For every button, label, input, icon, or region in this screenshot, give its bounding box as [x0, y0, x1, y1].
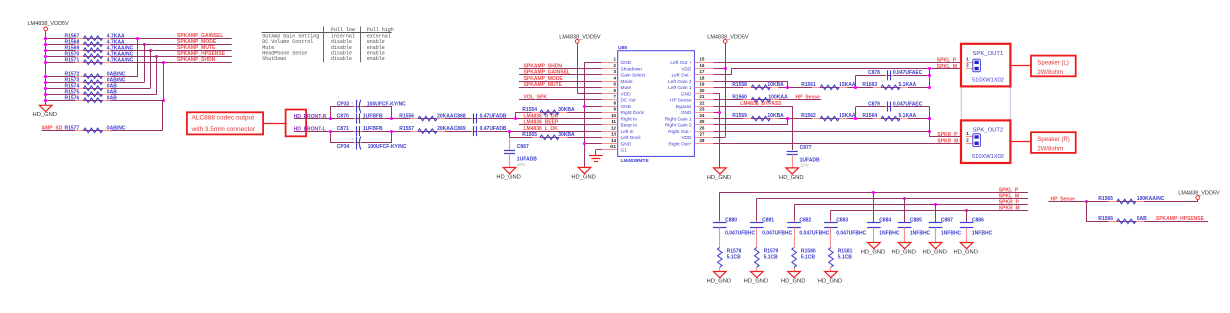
svg-text:R1557: R1557	[399, 126, 414, 132]
svg-text:10KBA: 10KBA	[767, 113, 784, 119]
svg-text:20: 20	[700, 88, 705, 93]
svg-text:LM4838_VDD5V: LM4838_VDD5V	[28, 21, 70, 27]
svg-text:R1558: R1558	[732, 82, 747, 88]
svg-text:25: 25	[700, 119, 705, 124]
svg-text:HD_GND: HD_GND	[707, 175, 731, 181]
svg-text:VDD: VDD	[681, 135, 692, 141]
svg-text:11: 11	[611, 119, 616, 124]
svg-text:G1: G1	[621, 148, 628, 154]
svg-text:HD_GND: HD_GND	[891, 249, 915, 255]
svg-text:30KBA: 30KBA	[558, 107, 575, 113]
svg-text:SPKAMP_MODE: SPKAMP_MODE	[524, 76, 564, 82]
svg-text:VOL_SPK: VOL_SPK	[524, 95, 548, 101]
svg-text:R1555: R1555	[522, 132, 537, 138]
svg-text:HD_GND: HD_GND	[781, 278, 805, 284]
svg-text:HD_GND: HD_GND	[922, 249, 946, 255]
svg-text:5.1CB: 5.1CB	[838, 254, 853, 260]
svg-text:24: 24	[700, 113, 705, 118]
svg-text:510XW1X02: 510XW1X02	[972, 77, 1004, 83]
svg-text:C867: C867	[517, 144, 529, 150]
svg-text:1NFBHC: 1NFBHC	[910, 231, 931, 237]
svg-text:10KBA: 10KBA	[767, 82, 784, 88]
svg-text:C883: C883	[836, 217, 848, 223]
svg-text:10V: 10V	[517, 162, 526, 167]
svg-text:SPKR_P: SPKR_P	[937, 132, 958, 138]
svg-text:30KBA: 30KBA	[558, 132, 575, 138]
svg-text:HD_GND: HD_GND	[861, 249, 885, 255]
svg-text:R1560: R1560	[732, 94, 747, 100]
svg-text:10V: 10V	[801, 162, 810, 167]
svg-text:C885: C885	[910, 217, 922, 223]
svg-text:GND: GND	[621, 60, 632, 66]
svg-text:C878: C878	[868, 70, 880, 76]
svg-text:12: 12	[611, 125, 616, 130]
svg-text:15KAA: 15KAA	[839, 113, 856, 119]
svg-text:21: 21	[700, 94, 705, 99]
svg-text:Speaker (L): Speaker (L)	[1037, 60, 1068, 66]
svg-text:5.1CB: 5.1CB	[801, 254, 816, 260]
svg-text:2W/8ohm: 2W/8ohm	[1037, 147, 1063, 153]
svg-text:20KAA: 20KAA	[437, 126, 454, 132]
svg-text:C884: C884	[879, 217, 891, 223]
svg-text:R1561: R1561	[801, 82, 816, 88]
svg-text:C869: C869	[454, 126, 466, 132]
svg-text:5.1KAA: 5.1KAA	[899, 113, 917, 119]
svg-text:SPK_OUT1: SPK_OUT1	[973, 51, 1004, 57]
svg-text:R1576: R1576	[65, 95, 80, 101]
svg-text:SPKAMP_SHDN: SPKAMP_SHDN	[524, 63, 563, 69]
svg-text:HD_GND: HD_GND	[496, 174, 520, 180]
svg-text:HD_GND: HD_GND	[707, 278, 731, 284]
svg-text:ALC888 codec output: ALC888 codec output	[192, 115, 255, 122]
svg-text:0.047UFBHC: 0.047UFBHC	[799, 231, 829, 237]
svg-text:Speaker (R): Speaker (R)	[1037, 137, 1069, 143]
svg-text:0.047UFBHC: 0.047UFBHC	[836, 231, 866, 237]
svg-text:Right In: Right In	[621, 116, 638, 122]
svg-text:Right Out+: Right Out+	[668, 141, 691, 147]
svg-text:C868: C868	[454, 114, 466, 120]
svg-text:with 3.5mm connector: with 3.5mm connector	[191, 126, 256, 133]
svg-text:HD_GND: HD_GND	[953, 249, 977, 255]
svg-text:G1: G1	[610, 144, 616, 149]
svg-text:HD_FRONT-R: HD_FRONT-R	[294, 114, 327, 120]
svg-text:GND: GND	[681, 91, 692, 97]
svg-text:LM4838_VDD5V: LM4838_VDD5V	[559, 35, 601, 41]
svg-text:C887: C887	[941, 217, 953, 223]
svg-text:HD_FRONT-L: HD_FRONT-L	[294, 126, 326, 132]
svg-text:10: 10	[611, 113, 616, 118]
svg-text:VDD: VDD	[681, 66, 692, 72]
svg-text:HD_GND: HD_GND	[744, 278, 768, 284]
svg-text:510XW1X02: 510XW1X02	[972, 154, 1004, 160]
svg-text:Left Gain 1: Left Gain 1	[668, 85, 692, 91]
svg-text:R1566: R1566	[1098, 216, 1113, 222]
svg-text:0.47UFADB: 0.47UFADB	[480, 126, 507, 132]
svg-text:18: 18	[700, 75, 705, 80]
svg-text:SPKAMP_GAINSEL: SPKAMP_GAINSEL	[524, 70, 570, 76]
svg-text:1UFBFB: 1UFBFB	[363, 114, 383, 120]
svg-text:U88: U88	[618, 45, 627, 51]
svg-text:0AB/NC: 0AB/NC	[107, 126, 126, 132]
svg-text:HD_GND: HD_GND	[818, 278, 842, 284]
svg-text:C886: C886	[972, 217, 984, 223]
svg-text:100KAA/NC: 100KAA/NC	[1137, 196, 1165, 202]
svg-text:5.1KAA: 5.1KAA	[899, 82, 917, 88]
svg-text:17: 17	[700, 69, 705, 74]
svg-text:HD_GND: HD_GND	[779, 175, 803, 181]
svg-text:Mute: Mute	[621, 85, 632, 91]
svg-text:100UFCF-KY/NC: 100UFCF-KY/NC	[367, 101, 406, 107]
svg-text:HD_GND: HD_GND	[33, 112, 57, 118]
svg-text:0.047UFBHC: 0.047UFBHC	[762, 231, 792, 237]
svg-text:GND: GND	[621, 104, 632, 110]
svg-text:0AB: 0AB	[107, 95, 117, 101]
svg-text:R1577: R1577	[65, 126, 80, 132]
svg-text:1NFBHC: 1NFBHC	[941, 231, 962, 237]
svg-text:5.1CB: 5.1CB	[727, 254, 742, 260]
svg-text:VDD: VDD	[621, 91, 632, 97]
svg-text:HP_Sense: HP_Sense	[1051, 196, 1076, 202]
svg-text:C870: C870	[337, 114, 349, 120]
svg-text:14: 14	[611, 138, 616, 143]
svg-text:SPKL_M: SPKL_M	[937, 64, 957, 70]
svg-text:Left Dock: Left Dock	[621, 135, 642, 141]
svg-text:Gain Select: Gain Select	[621, 73, 646, 79]
svg-text:SPKAMP_MUTE: SPKAMP_MUTE	[524, 82, 563, 88]
svg-text:C871: C871	[337, 126, 349, 132]
svg-text:disable: disable	[331, 56, 352, 62]
svg-text:SPKR_M: SPKR_M	[937, 138, 958, 144]
svg-text:Right Dock: Right Dock	[621, 110, 645, 116]
svg-text:5.1CB: 5.1CB	[764, 254, 779, 260]
svg-text:R1565: R1565	[1098, 196, 1113, 202]
svg-text:Left Out +: Left Out +	[670, 60, 691, 66]
svg-text:LM4838_BYPASS: LM4838_BYPASS	[740, 101, 782, 107]
svg-text:26: 26	[700, 125, 705, 130]
svg-text:27: 27	[700, 132, 705, 137]
svg-text:28: 28	[700, 138, 705, 143]
svg-text:0.047UFAEC: 0.047UFAEC	[893, 101, 923, 107]
svg-text:SPKAMP_HPSENSE: SPKAMP_HPSENSE	[1156, 216, 1205, 222]
svg-text:15: 15	[700, 57, 705, 62]
svg-text:1UFBFB: 1UFBFB	[363, 126, 383, 132]
svg-text:Right Gain 2: Right Gain 2	[665, 123, 692, 129]
svg-text:0.047UFBHC: 0.047UFBHC	[725, 231, 755, 237]
svg-text:R1571: R1571	[65, 57, 80, 63]
svg-text:23: 23	[700, 107, 705, 112]
svg-text:Left in: Left in	[621, 129, 634, 135]
svg-text:C879: C879	[868, 101, 880, 107]
svg-text:LM4838MTE: LM4838MTE	[621, 158, 650, 164]
svg-text:100UFCF-KY/NC: 100UFCF-KY/NC	[368, 144, 407, 150]
svg-text:R1564: R1564	[862, 113, 877, 119]
svg-text:R1559: R1559	[732, 113, 747, 119]
svg-text:Pull low: Pull low	[331, 27, 355, 33]
svg-text:SPKL_P: SPKL_P	[999, 187, 1019, 193]
svg-text:Right Gain 1: Right Gain 1	[665, 116, 692, 122]
svg-text:LM4838_VDD5V: LM4838_VDD5V	[707, 35, 749, 41]
svg-text:CP33: CP33	[337, 101, 350, 107]
svg-text:C882: C882	[799, 217, 811, 223]
svg-text:19: 19	[700, 82, 705, 87]
svg-text:AMP_SD: AMP_SD	[42, 125, 63, 131]
svg-text:C877: C877	[800, 145, 812, 151]
svg-text:C881: C881	[762, 217, 774, 223]
svg-text:enable: enable	[367, 56, 385, 62]
svg-text:CP34: CP34	[337, 144, 350, 150]
svg-text:ShutDown: ShutDown	[262, 56, 286, 62]
svg-text:20KAA: 20KAA	[437, 114, 454, 120]
svg-text:22: 22	[700, 100, 705, 105]
svg-text:Pull high: Pull high	[367, 27, 394, 33]
svg-text:16: 16	[700, 63, 705, 68]
svg-text:15KAA: 15KAA	[839, 82, 856, 88]
svg-text:2W/8ohm: 2W/8ohm	[1037, 70, 1063, 76]
svg-text:SPKR_M: SPKR_M	[999, 205, 1020, 211]
svg-text:Mode: Mode	[621, 79, 633, 85]
svg-text:Left Out -: Left Out -	[672, 73, 692, 79]
svg-text:HP Sense: HP Sense	[670, 98, 692, 104]
svg-text:SPK_OUT2: SPK_OUT2	[973, 128, 1004, 134]
svg-text:0.47UFADB: 0.47UFADB	[480, 114, 507, 120]
svg-text:GND: GND	[681, 110, 692, 116]
svg-text:HP_Sense: HP_Sense	[796, 94, 821, 100]
svg-text:DC Vol: DC Vol	[621, 98, 636, 104]
svg-text:Right Out -: Right Out -	[668, 129, 692, 135]
svg-text:C880: C880	[725, 217, 737, 223]
svg-text:Left Gain 2: Left Gain 2	[668, 79, 692, 85]
svg-text:SPKL_P: SPKL_P	[937, 58, 957, 64]
svg-text:GND: GND	[621, 141, 632, 147]
svg-text:Shutdown: Shutdown	[621, 66, 643, 72]
svg-text:R1563: R1563	[862, 82, 877, 88]
svg-text:1NFBHC: 1NFBHC	[972, 231, 993, 237]
svg-text:0.047UFAEC: 0.047UFAEC	[893, 70, 923, 76]
svg-text:Bypass: Bypass	[676, 104, 692, 110]
svg-text:13: 13	[611, 132, 616, 137]
svg-text:SPKAMP_SHDN: SPKAMP_SHDN	[177, 57, 216, 63]
svg-text:R1562: R1562	[801, 113, 816, 119]
svg-text:1NFBHC: 1NFBHC	[879, 231, 900, 237]
svg-text:Beep In: Beep In	[621, 123, 638, 129]
svg-text:HD_GND: HD_GND	[571, 174, 595, 180]
svg-text:4.7KAA/NC: 4.7KAA/NC	[107, 57, 134, 63]
svg-text:R1556: R1556	[399, 114, 414, 120]
svg-text:100KAA: 100KAA	[768, 94, 788, 100]
svg-text:0AB: 0AB	[1137, 216, 1147, 222]
svg-text:R1554: R1554	[522, 107, 537, 113]
